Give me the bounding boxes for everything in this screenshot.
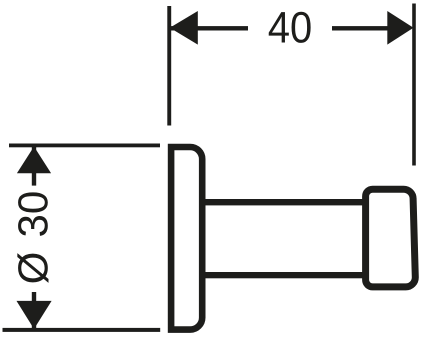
extension line left (wall face, dim 40) <box>167 6 171 126</box>
dimension line 40 left segment <box>169 26 248 30</box>
hook stem bottom line <box>202 272 366 278</box>
dimension line 40 right segment <box>332 26 388 30</box>
hook wall plate <box>171 147 202 330</box>
arrowhead down (dim 30) <box>17 301 52 329</box>
label 40 <box>269 12 311 43</box>
extension line top (plate top, dim 30) <box>9 144 160 148</box>
dimension line 30 upper segment <box>32 145 36 185</box>
dimension line 30 lower segment <box>32 292 36 329</box>
extension line right (knob face, dim 40) <box>412 4 416 166</box>
arrowhead left (dim 40) <box>170 11 198 45</box>
arrowhead up (dim 30) <box>17 147 51 174</box>
hook knob <box>366 189 416 287</box>
arrowhead right (dim 40) <box>387 11 413 45</box>
hook stem top line <box>202 199 366 205</box>
label diameter 30 <box>17 192 48 282</box>
extension line bottom (plate bottom, dim 30) <box>3 328 161 332</box>
